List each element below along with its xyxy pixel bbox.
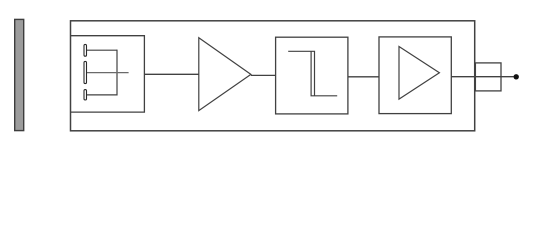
enclosure <box>71 21 475 131</box>
bus wire vertical <box>116 50 118 96</box>
wire electrode E3 to bus <box>87 94 117 96</box>
wire U1 output to amplifier <box>144 73 198 75</box>
wire amplifier to schmitt trigger <box>251 74 276 76</box>
output stage triangle <box>399 47 439 100</box>
wire electrode E1 to bus <box>87 49 117 51</box>
wire electrode E2 stub <box>87 72 129 74</box>
wire schmitt trigger to output stage <box>348 76 379 78</box>
schmitt trigger block U2 <box>276 37 348 114</box>
electrode E1 <box>84 44 87 56</box>
output node dot <box>514 74 519 79</box>
amplifier A1 <box>199 38 251 111</box>
electrode E3 <box>84 90 87 100</box>
electrode E2 <box>84 61 87 83</box>
schmitt trigger symbol <box>288 51 337 96</box>
output stage block U3 <box>379 37 451 114</box>
wire output stage to terminal <box>451 76 513 78</box>
oscillator block U1 <box>71 36 145 112</box>
terminal block J1 <box>475 63 501 91</box>
target plate <box>15 19 24 130</box>
